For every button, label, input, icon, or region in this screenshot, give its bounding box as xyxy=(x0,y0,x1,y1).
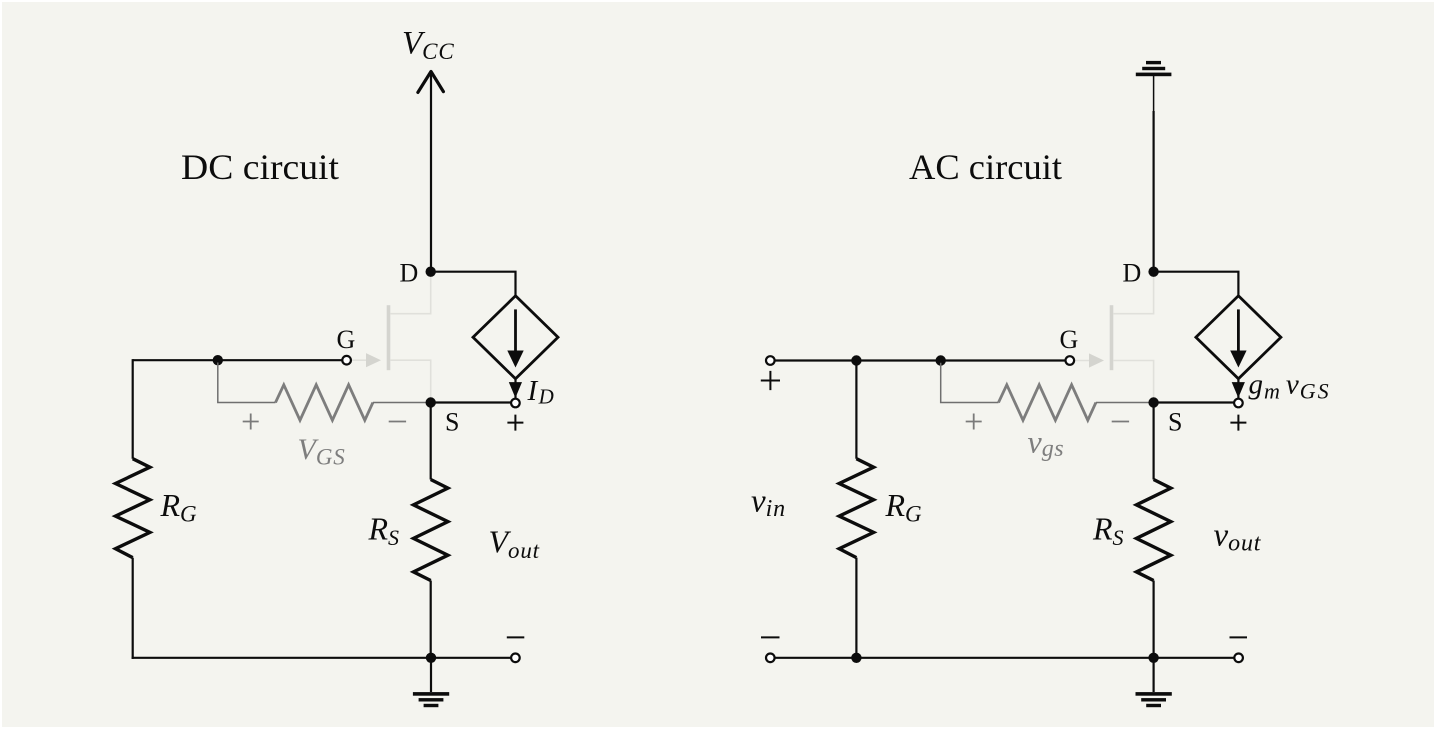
transistor M1 drain lead xyxy=(390,277,430,314)
wire bottom rail xyxy=(132,657,511,659)
node S junction dot right xyxy=(1148,397,1158,407)
minus sign vout bottom xyxy=(1230,636,1248,638)
resistor RS2 zigzag xyxy=(1136,480,1170,581)
transistor M1 (faded) gate lead xyxy=(351,359,367,361)
wire S to output terminal xyxy=(431,401,511,403)
resistor RG2 zigzag xyxy=(839,459,873,558)
plus sign vgs (gray) xyxy=(966,414,982,430)
svg-text:DC circuit: DC circuit xyxy=(181,147,339,187)
minus sign VGS (gray) xyxy=(389,421,406,423)
resistor RG zigzag xyxy=(116,459,150,558)
svg-text:D: D xyxy=(1123,259,1142,288)
wire top rail right circuit xyxy=(775,359,1065,361)
node junction dot vgs top xyxy=(936,355,946,365)
node junction dot RG top xyxy=(851,355,861,365)
node D junction dot right xyxy=(1148,267,1158,277)
minus sign Vout bottom xyxy=(507,636,525,638)
plus sign VGS (gray) xyxy=(243,414,259,430)
transistor M1 gate bar xyxy=(387,305,391,370)
wire RG to bottom rail xyxy=(132,558,134,659)
node bottom junction dot xyxy=(426,653,436,663)
transistor M2 gate arrow xyxy=(1089,353,1104,367)
transistor M1 source lead xyxy=(390,360,430,398)
terminal bottom right (open circle) xyxy=(511,654,520,663)
wire S to output terminal right xyxy=(1154,401,1234,403)
ground right xyxy=(1136,692,1172,707)
svg-text:S: S xyxy=(445,408,459,437)
resistor VGS zigzag (gray) xyxy=(276,385,373,420)
wire RS2 to bottom rail xyxy=(1152,581,1154,658)
transistor M1 gate arrow xyxy=(366,353,381,367)
node D junction dot xyxy=(426,267,436,277)
node S junction dot xyxy=(426,397,436,407)
minus sign vin xyxy=(761,636,780,638)
resistor vgs zigzag (gray) xyxy=(999,385,1096,420)
terminal vin plus (open circle) xyxy=(766,356,775,365)
terminal ID (open circle) xyxy=(511,399,520,408)
wire RS to bottom rail xyxy=(430,581,432,658)
plus sign vout top right xyxy=(1230,415,1246,431)
vgs lead right (gray) xyxy=(1096,402,1154,404)
ground top (AC) xyxy=(1136,61,1172,76)
plus sign vin xyxy=(761,371,780,390)
terminal G (open circle) xyxy=(342,356,351,365)
ground lead left xyxy=(430,658,432,692)
svg-text:AC circuit: AC circuit xyxy=(909,147,1062,187)
wire bottom rail right circuit xyxy=(775,657,1234,659)
transistor M2 gate bar xyxy=(1110,305,1114,370)
svg-text:D: D xyxy=(400,259,419,288)
minus sign vgs (gray) xyxy=(1112,421,1129,423)
terminal gmvGS (open circle) xyxy=(1234,399,1243,408)
wire S down to RS xyxy=(430,403,432,480)
VCC arrow xyxy=(418,72,444,93)
VGS lead right (gray) xyxy=(373,402,431,404)
plus sign Vout top xyxy=(507,415,523,431)
wire S down to RS right xyxy=(1152,403,1154,480)
node bottom junction dot RG2 xyxy=(851,653,861,663)
terminal vout bottom (open circle) xyxy=(1234,654,1243,663)
wire VCC to D xyxy=(430,73,432,272)
node bottom junction dot RS2 xyxy=(1148,653,1158,663)
ground left xyxy=(413,692,449,707)
current source G1 arrow xyxy=(1237,309,1240,352)
wire D to current source xyxy=(1154,272,1239,297)
wire RG2 top xyxy=(855,361,857,459)
svg-text:G: G xyxy=(337,325,356,354)
wire current source to output node right xyxy=(1237,379,1239,399)
terminal vin minus (open circle) xyxy=(766,654,775,663)
wire current source to output node xyxy=(514,379,516,399)
wire left rail down xyxy=(132,359,134,459)
current direction arrowhead ID xyxy=(509,382,522,398)
transistor M2 source lead xyxy=(1113,361,1153,399)
wire RG2 to bottom rail xyxy=(855,558,857,658)
wire top rail gate row xyxy=(133,359,342,361)
current direction arrowhead gmvGS xyxy=(1232,382,1245,398)
transistor M2 (faded) gate lead xyxy=(1074,360,1090,362)
svg-text:S: S xyxy=(1168,408,1182,437)
VGS lead left (gray) xyxy=(218,363,276,403)
ground lead right xyxy=(1152,658,1154,692)
node junction dot top xyxy=(213,355,223,365)
resistor RS zigzag xyxy=(414,480,448,581)
current source G1 diamond xyxy=(1196,296,1281,379)
terminal G right (open circle) xyxy=(1066,356,1075,365)
wire D to current source xyxy=(431,272,516,297)
wire top ground to D xyxy=(1153,76,1155,112)
svg-text:G: G xyxy=(1060,325,1079,354)
current source I1 arrow xyxy=(514,309,517,352)
vgs lead left (gray) xyxy=(941,363,999,403)
current source I1 diamond xyxy=(473,296,558,379)
transistor M2 drain lead xyxy=(1113,277,1153,314)
